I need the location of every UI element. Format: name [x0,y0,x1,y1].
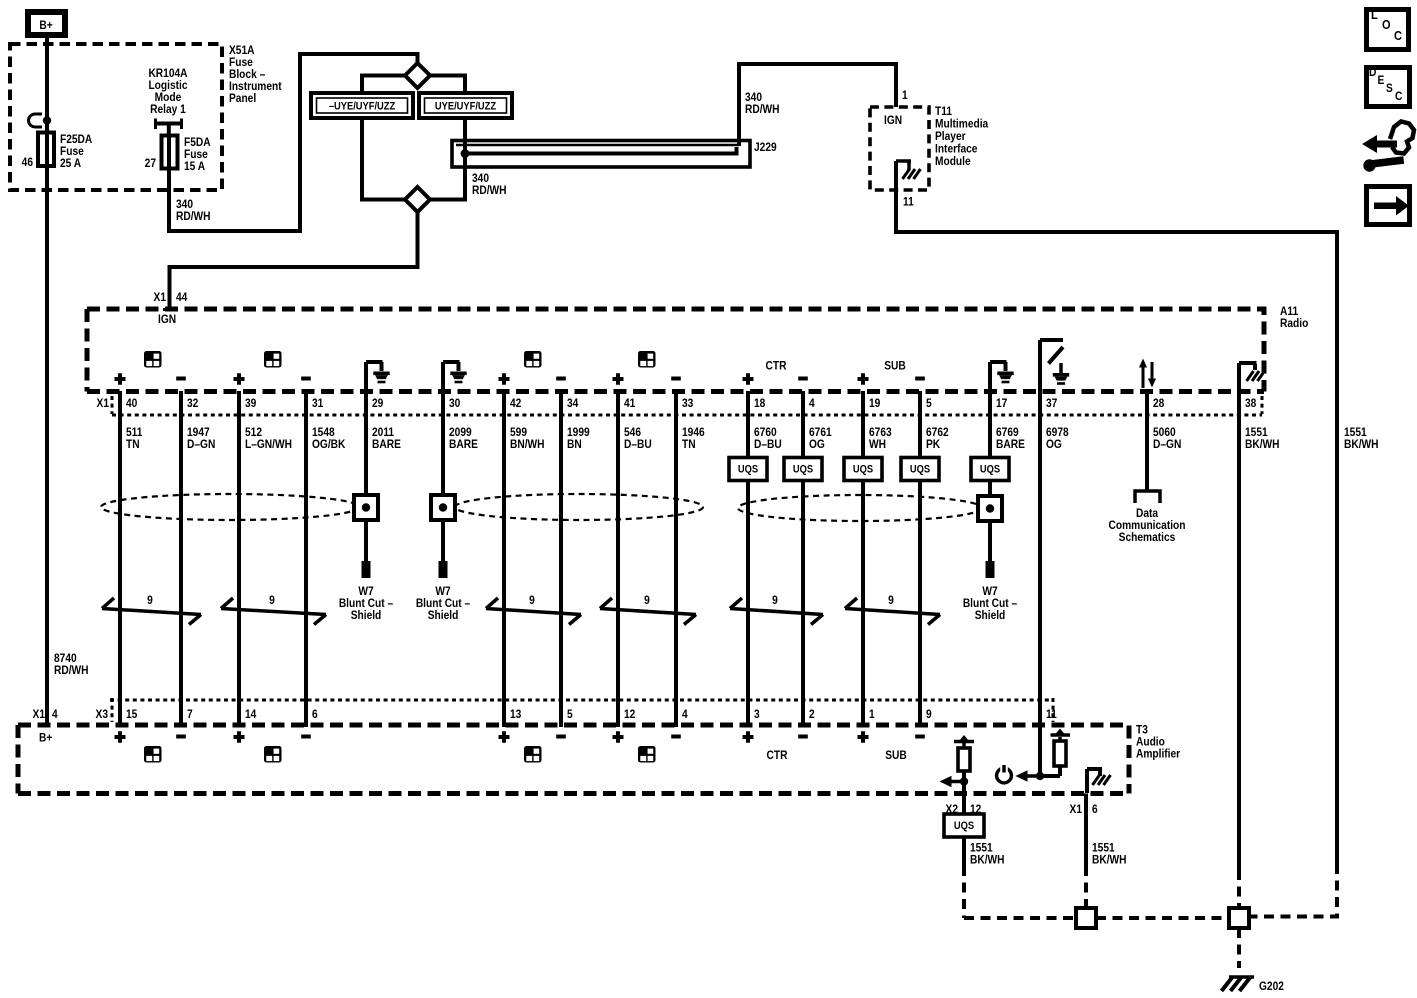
svg-text:25 A: 25 A [60,157,81,170]
svg-text:IGN: IGN [158,313,176,326]
svg-text:Block –: Block – [229,68,265,81]
svg-text:Data: Data [1136,507,1159,520]
radio A11 label [1280,305,1308,330]
wire to option UYE box [430,76,465,94]
fuse F5DA 15A pin 27 [145,136,211,174]
svg-text:Module: Module [935,155,971,168]
svg-text:X3: X3 [96,708,108,721]
svg-text:Mode: Mode [155,91,182,104]
harness crossing mark 9 (wires at 120/181) [102,594,201,624]
radio internal shield ground at pin 17 [990,362,1014,391]
svg-text:13: 13 [510,708,521,721]
svg-text:Relay 1: Relay 1 [150,103,186,116]
svg-text:1551: 1551 [970,842,993,855]
T11 internal ground [896,161,921,190]
svg-text:37: 37 [1046,397,1057,410]
wire 1551 BK/WH (radio 38 ground) [1237,391,1241,870]
svg-text:OG/BK: OG/BK [312,438,345,451]
shield termination on wire 2011 [354,495,378,520]
blunt cut shield W7 (wire 30) [416,561,470,622]
polarity - at amp (x=920) [915,735,925,739]
svg-text:4: 4 [809,397,815,410]
svg-text:9: 9 [269,594,275,607]
svg-text:X1: X1 [97,397,109,410]
svg-text:Multimedia: Multimedia [935,118,989,131]
svg-text:6769: 6769 [996,426,1019,439]
svg-text:33: 33 [682,397,693,410]
label 340 RD/WH at fuse [176,198,211,223]
twisted pair shield ellipse (wires 6760/6761/6763/6762) [738,495,982,521]
svg-text:340: 340 [745,91,762,104]
radio serial data arrows at pin 28 [1139,359,1156,389]
svg-text:UQS: UQS [793,464,813,476]
svg-text:–UYE/UYF/UZZ: –UYE/UYF/UZZ [329,101,395,113]
svg-text:SUB: SUB [885,749,907,762]
UQS option tag on wire 6769 [971,458,1009,481]
ground bus wire between junctions [1096,916,1229,920]
wire 340 RD/WH (splice J229 to T11 pin 1) [739,64,896,146]
svg-text:CTR: CTR [766,360,787,373]
svg-text:15: 15 [126,708,137,721]
svg-text:18: 18 [754,397,765,410]
polarity - at radio pin 33 [671,377,681,381]
svg-text:F5DA: F5DA [184,136,211,149]
svg-text:42: 42 [510,397,521,410]
polarity + at radio pin 41 [613,373,624,384]
polarity - at amp (x=561) [556,735,566,739]
speaker icon (amp 15/7) [144,746,162,763]
speaker icon (radio 39/31) [264,351,282,368]
svg-text:511: 511 [126,426,142,439]
UQS option tag on wire X2-12 [944,814,984,837]
svg-text:OG: OG [809,438,825,451]
polarity - at amp (x=803) [798,735,808,739]
polarity - at amp (x=306) [301,735,311,739]
icon DESC [1367,66,1410,106]
svg-text:Radio: Radio [1280,317,1308,330]
radio internal switched ground at pin 37 [1040,340,1069,391]
svg-text:32: 32 [187,397,198,410]
amp X2-12 output arrow [940,776,969,788]
polarity + at radio pin 18 [743,373,754,384]
svg-text:9: 9 [529,594,535,607]
svg-text:9: 9 [772,594,778,607]
speaker icon (radio 42/34) [524,351,542,368]
svg-text:IGN: IGN [884,114,902,127]
svg-text:340: 340 [176,198,193,211]
shield termination on wire 6769 [978,496,1002,521]
wire 1551 BK/WH (T11 pin 11 ground run, right side) [896,190,1337,864]
svg-text:RD/WH: RD/WH [745,103,780,116]
svg-text:1551: 1551 [1245,426,1268,439]
svg-text:599: 599 [510,426,527,439]
svg-text:X51A: X51A [229,44,255,57]
wire 1999 BN (radio 34 to amplifier) [559,391,563,727]
T11 label [935,105,989,168]
speaker icon (amp 12/4) [638,746,656,763]
svg-text:BK/WH: BK/WH [1245,438,1280,451]
svg-text:Blunt Cut –: Blunt Cut – [963,597,1017,610]
fuse block X51A label [229,44,282,105]
option split diamond (top) [405,63,430,88]
wire 546 D-BU (radio 41 to amplifier) [616,391,620,727]
svg-text:Instrument: Instrument [229,80,282,93]
svg-text:546: 546 [624,426,641,439]
svg-text:L–GN/WH: L–GN/WH [245,438,292,451]
polarity + at radio pin 19 [858,373,869,384]
UQS option tag on wire 6763 [844,458,882,481]
svg-text:J229: J229 [754,141,777,154]
svg-text:8740: 8740 [54,652,77,665]
svg-text:11: 11 [1046,708,1057,721]
polarity - at radio pin 32 [176,377,186,381]
option label UYE/UYF/UZZ [419,93,512,118]
amp internal coil from pin 11 [1042,729,1070,777]
polarity + at amp (x=239) [234,731,245,742]
svg-text:B+: B+ [39,732,53,745]
label 340 RD/WH at T11 [745,91,780,116]
wire B+ feed into fuse block [45,38,49,166]
svg-text:RD/WH: RD/WH [472,184,507,197]
shield drain wire 2099 BARE (radio 30) [441,391,445,561]
svg-text:BN: BN [567,438,582,451]
amplifier T3 box [18,725,1129,794]
svg-text:X1: X1 [154,291,166,304]
svg-text:4: 4 [52,708,58,721]
shield drain wire 2011 BARE (radio 29) [364,391,368,561]
svg-text:15 A: 15 A [184,160,205,173]
polarity + at amp (x=120) [115,731,126,742]
power symbol B+ [28,12,65,35]
svg-text:11: 11 [903,196,914,209]
svg-text:28: 28 [1153,397,1164,410]
svg-text:9: 9 [147,594,153,607]
wire 6761 OG (radio 4 to amplifier) [801,391,805,727]
svg-text:D: D [1369,66,1376,79]
svg-text:14: 14 [245,708,257,721]
shield termination on wire 2099 [431,495,455,520]
amp connector X2 pin 12 [946,803,982,816]
svg-text:BK/WH: BK/WH [1092,854,1127,867]
svg-text:C: C [1394,28,1402,43]
UQS option tag on wire 6761 [784,458,822,481]
svg-text:41: 41 [624,397,635,410]
polarity + at radio pin 40 [115,373,126,384]
polarity - at amp (x=181) [176,735,186,739]
svg-text:B+: B+ [39,19,53,32]
svg-text:UYE/UYF/UZZ: UYE/UYF/UZZ [435,101,496,113]
wire UYE branch through splice J229 to merge diamond [430,118,465,200]
svg-text:1: 1 [902,89,908,102]
svg-text:X1: X1 [33,708,45,721]
shield drain wire 6769 BARE (radio 17) [988,391,992,561]
svg-text:TN: TN [126,438,140,451]
splice pack J229 [452,141,777,168]
svg-text:Schematics: Schematics [1119,531,1176,544]
svg-text:Shield: Shield [351,609,382,622]
polarity - at radio pin 31 [301,377,311,381]
svg-text:OG: OG [1046,438,1062,451]
svg-text:5: 5 [926,397,932,410]
svg-text:Fuse: Fuse [60,145,84,158]
svg-text:3: 3 [754,708,760,721]
amp internal power symbol [997,765,1012,783]
svg-text:Shield: Shield [975,609,1006,622]
svg-text:F25DA: F25DA [60,133,92,146]
svg-text:6978: 6978 [1046,426,1069,439]
amp power feed arrow from pin 11 [1016,770,1045,782]
svg-text:D–BU: D–BU [754,438,782,451]
svg-text:D–BU: D–BU [624,438,652,451]
svg-text:5: 5 [567,708,573,721]
svg-text:RD/WH: RD/WH [54,664,89,677]
speaker icon (amp 13/5) [524,746,542,763]
svg-text:Amplifier: Amplifier [1136,748,1181,761]
svg-text:7: 7 [187,708,193,721]
svg-text:34: 34 [567,397,579,410]
svg-text:UQS: UQS [954,820,974,832]
svg-text:1947: 1947 [187,426,210,439]
front speaker icon (radio 40/32) [144,351,162,368]
svg-text:Communication: Communication [1109,519,1186,532]
svg-text:BK/WH: BK/WH [1344,438,1379,451]
svg-text:Panel: Panel [229,92,256,105]
wire 1551 BK/WH (amp X2-12 to ground) [962,837,966,866]
option merge diamond (bottom) [405,187,430,212]
polarity - at radio pin 34 [556,377,566,381]
speaker icon (radio 41/33) [638,351,656,368]
svg-text:31: 31 [312,397,323,410]
svg-text:9: 9 [644,594,650,607]
polarity + at amp (x=748) [743,731,754,742]
svg-text:5060: 5060 [1153,426,1176,439]
svg-text:6760: 6760 [754,426,777,439]
polarity - at radio pin 4 [798,377,808,381]
svg-text:A11: A11 [1280,305,1298,318]
speaker icon (amp 14/6) [264,746,282,763]
amp internal coil to X2-12 [954,735,974,814]
svg-text:D–GN: D–GN [187,438,215,451]
ground G202 [1222,977,1284,993]
wire 5060 D-GN (radio 28 serial data) [1145,391,1149,491]
radio connector face line [112,414,1262,417]
amplifier T3 label [1136,724,1181,761]
polarity - at amp (x=676) [671,735,681,739]
svg-text:6763: 6763 [869,426,892,439]
twisted pair shield ellipse (wires 599/1999/546/1946) [455,494,703,520]
svg-text:BN/WH: BN/WH [510,438,545,451]
svg-text:D–GN: D–GN [1153,438,1181,451]
svg-text:2: 2 [809,708,815,721]
svg-text:CTR: CTR [767,749,788,762]
svg-text:Player: Player [935,130,966,143]
amp connector X1 pin 4 B+ [33,708,59,744]
wire 8740 RD/WH (B+ to amplifier X1-4) [45,166,49,727]
fuse F25DA 25A pin 46 [22,133,93,171]
svg-text:46: 46 [22,156,33,169]
harness crossing mark 9 (wires at 748/803) [730,594,823,624]
polarity - at radio pin 5 [915,377,925,381]
fuse block X51A box [10,44,222,190]
wire 6760 D–BU (radio 18 to amplifier) [746,391,750,727]
svg-text:KR104A: KR104A [148,67,187,80]
svg-text:BARE: BARE [996,438,1025,451]
svg-text:40: 40 [126,397,137,410]
svg-text:UQS: UQS [910,464,930,476]
svg-text:Fuse: Fuse [184,148,208,161]
amp internal chassis ground at X1-6 [1087,769,1111,793]
svg-text:9: 9 [926,708,932,721]
icon continue arrow [1367,187,1410,225]
UQS option tag on wire 6762 [901,458,939,481]
svg-text:S: S [1386,82,1393,95]
svg-text:2011: 2011 [372,426,394,439]
blunt cut shield W7 (wire 29) [339,561,393,622]
amp connector X1 pin 6 [1070,803,1098,816]
amp connector face line [110,699,1053,702]
module T11 Multimedia Player Interface box [870,107,929,190]
svg-text:512: 512 [245,426,262,439]
svg-text:UQS: UQS [738,464,758,476]
wire 340 RD/WH (fuse F5DA to option split) [169,54,418,231]
splice tap symbol on B+ wire [29,114,52,127]
svg-text:6: 6 [312,708,318,721]
ground splice junction 1 [1076,908,1096,928]
wire 1947 D-GN (radio 32 to amplifier) [179,391,183,727]
label 1551 BK/WH right wire [1344,426,1379,451]
svg-text:WH: WH [869,438,886,451]
svg-text:W7: W7 [435,585,450,598]
svg-text:SUB: SUB [884,360,906,373]
svg-text:1551: 1551 [1092,842,1115,855]
wire 599 BN/WH (radio 42 to amplifier) [502,391,506,727]
polarity + at amp (x=863) [858,731,869,742]
svg-text:19: 19 [869,397,880,410]
svg-text:O: O [1382,17,1391,32]
svg-text:X1: X1 [1070,803,1082,816]
wire IGN feed to radio X1-44 [170,212,418,309]
ground splice junction 2 [1229,908,1249,928]
svg-text:44: 44 [176,291,188,304]
twisted pair shield ellipse (wires 511/1947/512/1548) [101,494,359,520]
svg-text:Blunt Cut –: Blunt Cut – [416,597,470,610]
svg-text:BK/WH: BK/WH [970,854,1005,867]
node X1-44 IGN [154,291,189,326]
wire to option -UYE box [362,76,405,94]
label 8740 RD/WH [54,652,89,677]
svg-text:30: 30 [449,397,460,410]
polarity + at amp (x=504) [499,731,510,742]
svg-text:340: 340 [472,172,489,185]
svg-text:38: 38 [1245,397,1256,410]
svg-text:G202: G202 [1259,980,1284,993]
svg-text:BARE: BARE [449,438,478,451]
svg-text:2099: 2099 [449,426,472,439]
wire 1551 BK/WH (amp X1-6 to ground) [1084,794,1088,867]
svg-text:1548: 1548 [312,426,335,439]
svg-text:1946: 1946 [682,426,705,439]
svg-text:6: 6 [1092,803,1098,816]
svg-text:39: 39 [245,397,256,410]
wire junction 2 to ground G202 [1237,928,1241,968]
wire 1946 TN (radio 33 to amplifier) [674,391,678,727]
wire 511 TN (radio 40 to amplifier) [118,391,122,727]
harness crossing mark 9 (wires at 863/920) [845,594,940,624]
svg-text:Audio: Audio [1136,736,1165,749]
harness crossing mark 9 (wires at 239/306) [221,594,326,624]
wire 1548 OG/BK (radio 31 to amplifier) [304,391,308,727]
svg-text:27: 27 [145,157,156,170]
svg-text:6762: 6762 [926,426,949,439]
harness crossing mark 9 (wires at 504/561) [486,594,581,624]
svg-text:PK: PK [926,438,940,451]
off-page reference to Data Communication Schematics [1109,491,1186,544]
svg-text:RD/WH: RD/WH [176,210,211,223]
svg-text:E: E [1378,74,1385,87]
svg-text:TN: TN [682,438,696,451]
icon LOC [1367,7,1409,49]
relay KR104A Logistic Mode Relay 1 [148,67,187,136]
svg-text:9: 9 [888,594,894,607]
svg-text:T3: T3 [1136,724,1148,737]
icon harness routing [1362,122,1414,172]
radio A11 box [87,309,1264,392]
harness crossing mark 9 (wires at 618/676) [600,594,696,624]
svg-text:17: 17 [996,397,1007,410]
svg-text:Fuse: Fuse [229,56,253,69]
label 340 RD/WH below splice [472,172,507,197]
svg-text:12: 12 [624,708,635,721]
svg-text:T11: T11 [935,105,952,118]
wire -UYE branch to merge diamond [362,118,405,200]
svg-text:Shield: Shield [428,609,459,622]
svg-text:L: L [1371,7,1378,22]
svg-text:W7: W7 [358,585,373,598]
wire 6763 WH (radio 19 to amplifier) [861,391,865,727]
option label -UYE/UYF/UZZ [311,93,413,118]
polarity + at radio pin 39 [234,373,245,384]
polarity + at amp (x=618) [613,731,624,742]
svg-text:1: 1 [869,708,875,721]
wire 6978 OG (radio 37 to amplifier 11) [1038,391,1042,776]
radio internal shield ground at pin 30 [443,362,467,391]
wire 6762 PK (radio 5 to amplifier) [918,391,922,727]
svg-text:BARE: BARE [372,438,401,451]
svg-text:4: 4 [682,708,688,721]
svg-text:C: C [1395,90,1402,103]
svg-text:UQS: UQS [853,464,873,476]
svg-text:1551: 1551 [1344,426,1367,439]
wire 512 L-GN/WH (radio 39 to amplifier) [237,391,241,727]
svg-text:1999: 1999 [567,426,590,439]
svg-text:29: 29 [372,397,383,410]
svg-text:W7: W7 [982,585,997,598]
UQS option tag on wire 6760 [729,458,767,481]
radio internal shield ground at pin 29 [366,362,390,391]
svg-text:Interface: Interface [935,143,977,156]
svg-text:Blunt Cut –: Blunt Cut – [339,597,393,610]
svg-text:UQS: UQS [980,464,1000,476]
blunt cut shield W7 (wire 17) [963,561,1017,622]
radio internal chassis ground at pin 38 [1239,363,1265,391]
polarity + at radio pin 42 [499,373,510,384]
svg-text:6761: 6761 [809,426,832,439]
svg-text:Logistic: Logistic [148,79,187,92]
